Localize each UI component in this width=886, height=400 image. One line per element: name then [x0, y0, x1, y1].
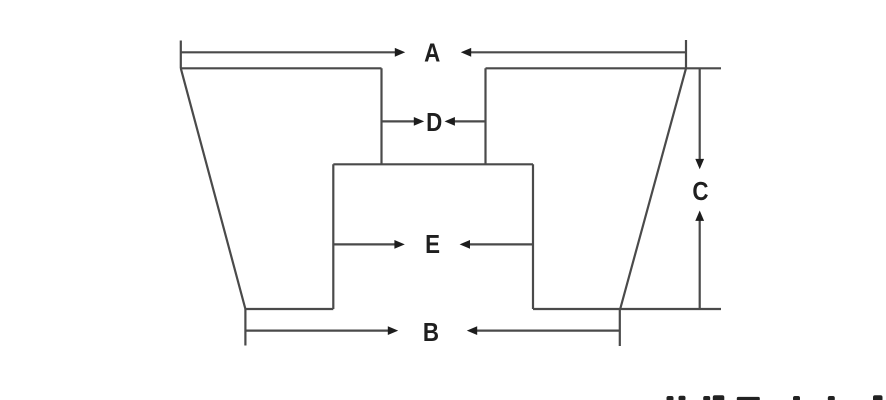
arrowhead E right (points left) [460, 240, 470, 249]
top edge left block [180, 67, 382, 69]
extension tick B right [619, 309, 621, 346]
left slant edge [181, 68, 246, 309]
svg-text:A: A [424, 39, 440, 68]
arrowhead A right (points left) [461, 48, 471, 57]
arrowhead D right (points left) [445, 117, 455, 126]
extension tick A left [180, 41, 182, 69]
arrowhead B left (points right) [388, 326, 398, 335]
svg-text:C: C [692, 178, 708, 207]
dimension line B left segment [245, 330, 389, 332]
dimension line A left segment [181, 51, 396, 53]
arrowhead C upper (points down) [695, 159, 704, 169]
dimension line C upper segment [699, 68, 701, 159]
dimension line D right segment [454, 120, 486, 122]
dimension line A right segment [470, 51, 686, 53]
extension tick A right [685, 40, 687, 68]
top edge right block + C top extension [486, 67, 722, 69]
svg-text:E: E [425, 231, 440, 260]
center box left wall [332, 164, 334, 309]
arrowhead D left (points right) [414, 117, 424, 126]
dimension line B right segment [476, 330, 620, 332]
arrowhead B right (points left) [467, 326, 477, 335]
bottom edge right block + C bottom extension [533, 308, 721, 310]
neck left wall [380, 68, 382, 164]
svg-text:B: B [423, 319, 439, 348]
right slant edge [620, 68, 686, 309]
arrowhead A left (points right) [395, 48, 405, 57]
center box top edge [333, 163, 533, 165]
dimension line C lower segment [699, 221, 701, 310]
neck right wall [484, 68, 486, 164]
dimension line D left segment [382, 120, 416, 122]
clipped bottom caption glyph tops [667, 396, 674, 400]
dimension line E left segment [333, 243, 396, 245]
svg-text:D: D [426, 108, 442, 137]
bottom edge left block [245, 308, 333, 310]
center box right wall [532, 164, 534, 309]
arrowhead C lower (points up) [695, 211, 704, 221]
dimension line E right segment [469, 243, 534, 245]
arrowhead E left (points right) [394, 240, 404, 249]
extension tick B left [244, 309, 246, 346]
